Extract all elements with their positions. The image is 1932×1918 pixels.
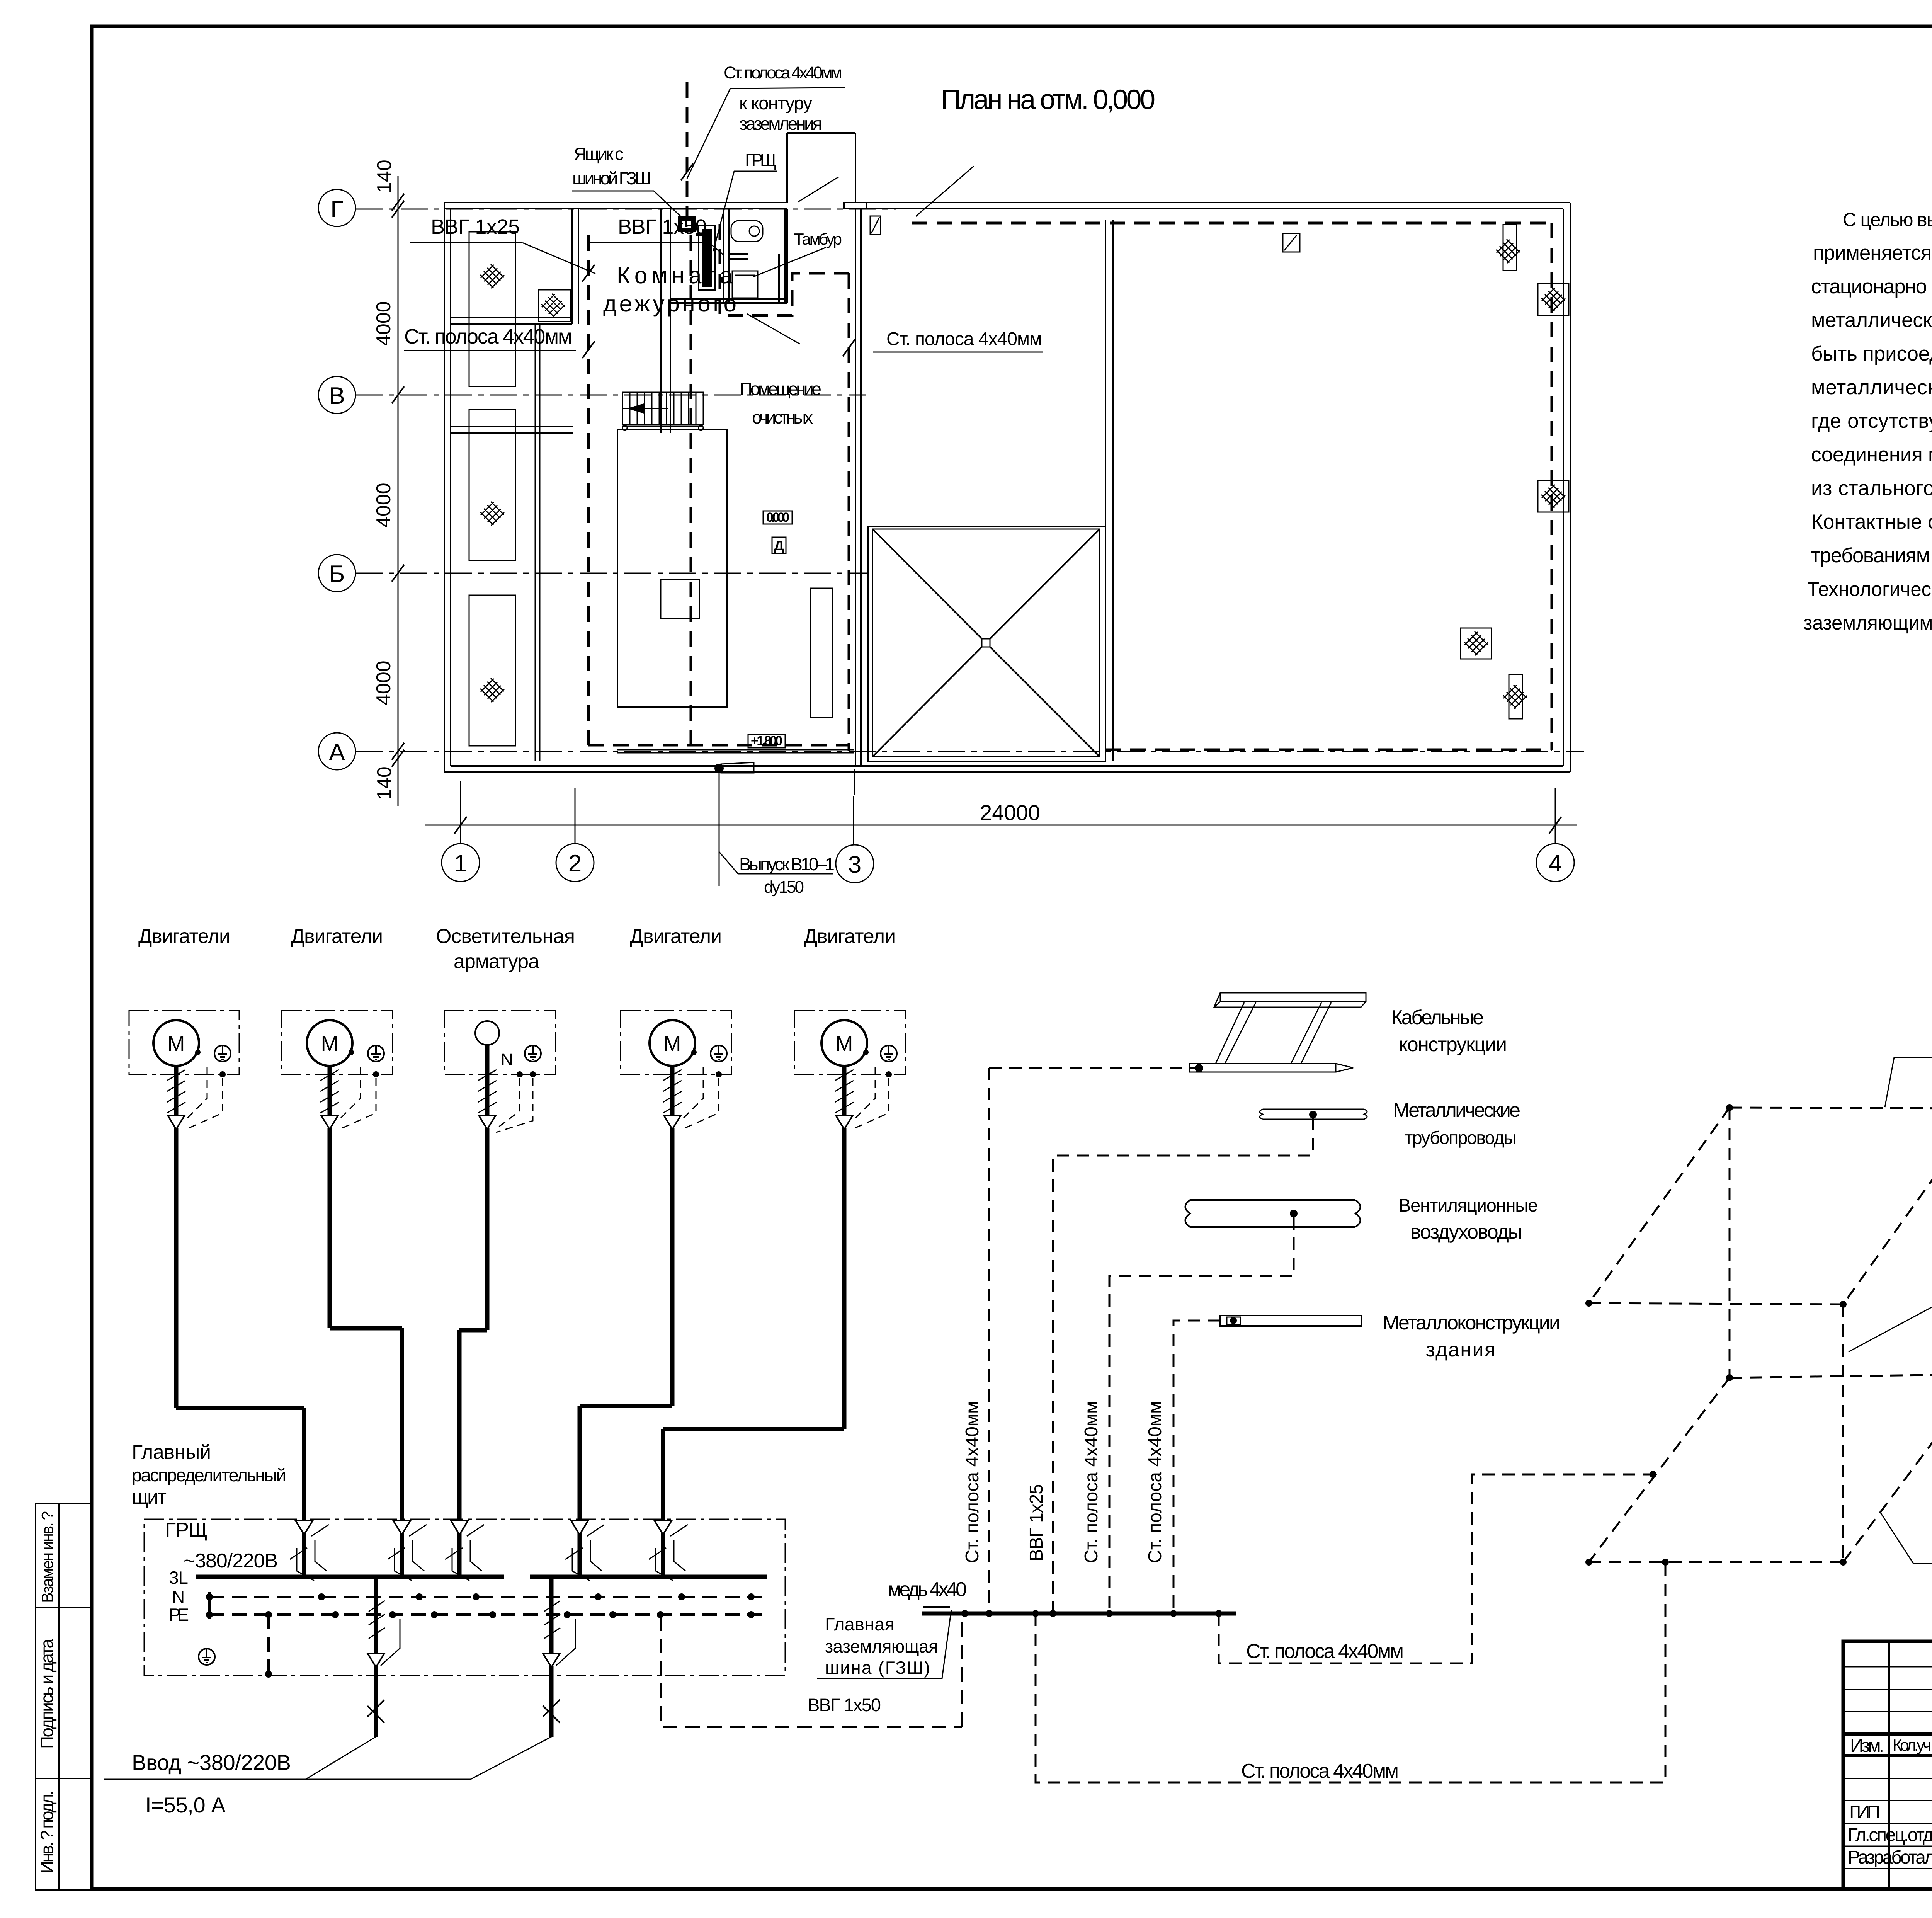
svg-text:dy150: dy150 bbox=[764, 878, 804, 897]
svg-text:щит: щит bbox=[132, 1486, 167, 1508]
svg-text:Двигатели: Двигатели bbox=[804, 925, 896, 948]
svg-text:Ст. полоса 4х40мм: Ст. полоса 4х40мм bbox=[962, 1401, 983, 1563]
svg-text:Главная: Главная bbox=[825, 1614, 895, 1634]
svg-text:Инв. ? подл.: Инв. ? подл. bbox=[37, 1790, 57, 1874]
svg-text:4000: 4000 bbox=[372, 660, 395, 705]
svg-text:ВВГ 1х50: ВВГ 1х50 bbox=[808, 1695, 881, 1715]
svg-text:Двигатели: Двигатели bbox=[291, 925, 383, 948]
svg-text:металлические контакты в со: металлические контакты в сочленениях явл… bbox=[1811, 376, 1932, 399]
svg-text:I=55,0 А: I=55,0 А bbox=[145, 1793, 226, 1817]
svg-text:применяется заземление, строи: применяется заземление, строительные мет… bbox=[1813, 242, 1932, 264]
svg-text:быть присоединены к сети з: быть присоединены к сети заземления. При… bbox=[1811, 342, 1932, 365]
svg-text:Главный: Главный bbox=[132, 1441, 211, 1464]
svg-text:заземляющая: заземляющая bbox=[825, 1636, 938, 1656]
svg-text:заземляющим проводником ВВГ1: заземляющим проводником ВВГ1х25 с ГЗШ по… bbox=[1803, 612, 1932, 634]
svg-text:Г: Г bbox=[330, 196, 344, 223]
svg-text:0.000: 0.000 bbox=[766, 510, 789, 525]
svg-text:4000: 4000 bbox=[372, 301, 395, 346]
svg-text:Кабельные: Кабельные bbox=[1391, 1006, 1484, 1029]
svg-text:Вентиляционные: Вентиляционные bbox=[1399, 1195, 1538, 1215]
svg-text:ГИП: ГИП bbox=[1849, 1802, 1880, 1823]
svg-text:М: М bbox=[168, 1032, 185, 1055]
svg-text:PE: PE bbox=[169, 1605, 189, 1625]
svg-text:медь 4х40: медь 4х40 bbox=[888, 1578, 967, 1601]
svg-text:4000: 4000 bbox=[372, 483, 395, 528]
svg-text:4: 4 bbox=[1549, 850, 1562, 877]
svg-text:здания: здания bbox=[1426, 1339, 1495, 1361]
svg-text:А: А bbox=[329, 739, 345, 766]
svg-text:к контуру: к контуру bbox=[739, 93, 813, 113]
svg-text:Контактные соединения должны: Контактные соединения должны быть выполн… bbox=[1811, 511, 1932, 533]
svg-text:конструкции: конструкции bbox=[1399, 1033, 1507, 1056]
svg-text:Ящик с: Ящик с bbox=[574, 144, 624, 164]
svg-text:Гл.спец.отд: Гл.спец.отд bbox=[1848, 1825, 1932, 1845]
svg-text:3L: 3L bbox=[169, 1567, 188, 1588]
svg-text:Д: Д bbox=[774, 538, 784, 553]
svg-text:N: N bbox=[501, 1050, 513, 1069]
svg-text:ГРЩ: ГРЩ bbox=[165, 1519, 207, 1541]
svg-text:Металлические: Металлические bbox=[1393, 1099, 1520, 1122]
svg-text:Взамен инв. ?: Взамен инв. ? bbox=[38, 1511, 56, 1603]
svg-text:Осветительная: Осветительная bbox=[436, 925, 575, 948]
svg-text:М: М bbox=[836, 1032, 853, 1055]
svg-text:Ст. полоса 4х40мм: Ст. полоса 4х40мм bbox=[886, 329, 1042, 349]
svg-text:Комната: Комната bbox=[617, 262, 733, 288]
svg-text:очистных: очистных bbox=[752, 407, 813, 427]
svg-text:ГРЩ: ГРЩ bbox=[745, 150, 777, 170]
svg-text:арматура: арматура bbox=[454, 950, 539, 973]
svg-text:В: В bbox=[329, 383, 345, 409]
svg-text:Ст. полоса 4х40мм: Ст. полоса 4х40мм bbox=[1241, 1760, 1399, 1782]
svg-text:Металлоконструкции: Металлоконструкции bbox=[1383, 1312, 1560, 1334]
svg-text:3: 3 bbox=[848, 851, 861, 878]
svg-text:Ст. полоса 4х40мм: Ст. полоса 4х40мм bbox=[1081, 1401, 1102, 1563]
svg-text:Помещение: Помещение bbox=[740, 379, 821, 399]
svg-text:соединения между ними должн: соединения между ними должны осуществлят… bbox=[1811, 443, 1932, 466]
svg-text:требованиям ГОСТ 10434–82.: требованиям ГОСТ 10434–82. bbox=[1811, 544, 1932, 567]
svg-text:ВВГ 1х50: ВВГ 1х50 bbox=[618, 215, 707, 238]
svg-text:1: 1 bbox=[454, 850, 467, 877]
svg-text:ВВГ 1х25: ВВГ 1х25 bbox=[1026, 1484, 1047, 1561]
svg-text:Изм.: Изм. bbox=[1850, 1736, 1884, 1756]
svg-text:140: 140 bbox=[373, 160, 396, 193]
svg-text:+1.800: +1.800 bbox=[751, 734, 782, 748]
svg-text:Выпуск В10–1: Выпуск В10–1 bbox=[739, 854, 835, 874]
svg-text:Разработал: Разработал bbox=[1848, 1847, 1932, 1868]
svg-text:дежурного: дежурного bbox=[603, 291, 736, 317]
svg-text:С целью выравнивания потенциал: С целью выравнивания потенциала во всех … bbox=[1843, 209, 1932, 230]
svg-text:стационарно проложенные труб: стационарно проложенные трубопроводы все… bbox=[1811, 275, 1932, 298]
svg-text:шиной ГЗШ: шиной ГЗШ bbox=[572, 168, 651, 188]
svg-text:~380/220В: ~380/220В bbox=[184, 1550, 278, 1572]
svg-text:2: 2 bbox=[568, 850, 582, 877]
svg-text:Технологический трубопровод: Технологический трубопровод В10–1 стальн… bbox=[1807, 578, 1932, 600]
svg-text:Кол.уч: Кол.уч bbox=[1893, 1736, 1931, 1754]
svg-text:трубопроводы: трубопроводы bbox=[1405, 1127, 1517, 1148]
svg-text:Ст. полоса 4х40мм: Ст. полоса 4х40мм bbox=[404, 325, 572, 348]
svg-text:Ст. полоса 4х40мм: Ст. полоса 4х40мм bbox=[724, 63, 842, 82]
svg-text:Тамбур: Тамбур bbox=[794, 230, 842, 248]
svg-text:М: М bbox=[321, 1032, 338, 1055]
svg-text:распределительный: распределительный bbox=[132, 1465, 286, 1485]
svg-text:Ст. полоса 4х40мм: Ст. полоса 4х40мм bbox=[1145, 1401, 1165, 1563]
svg-text:М: М bbox=[664, 1032, 681, 1055]
svg-text:металлические корпуса технол: металлические корпуса технологического о… bbox=[1811, 309, 1932, 332]
svg-text:где отсутствует металлически: где отсутствует металлический контакт ме… bbox=[1811, 410, 1932, 432]
svg-text:24000: 24000 bbox=[980, 800, 1040, 825]
svg-text:План на отм. 0,000: План на отм. 0,000 bbox=[941, 84, 1155, 115]
svg-text:Подпись и дата: Подпись и дата bbox=[37, 1639, 57, 1749]
svg-text:из стального троса диаметро: из стального троса диаметром 6 мм. bbox=[1811, 477, 1932, 500]
svg-text:ВВГ 1х25: ВВГ 1х25 bbox=[431, 215, 520, 238]
svg-text:N: N bbox=[172, 1587, 185, 1607]
svg-text:Двигатели: Двигатели bbox=[630, 925, 722, 948]
svg-text:Б: Б bbox=[329, 561, 345, 587]
svg-text:воздуховоды: воздуховоды bbox=[1410, 1221, 1522, 1243]
svg-text:Ввод ~380/220В: Ввод ~380/220В bbox=[132, 1750, 291, 1775]
svg-text:140: 140 bbox=[373, 766, 396, 800]
svg-text:Двигатели: Двигатели bbox=[138, 925, 230, 948]
svg-text:Ст. полоса 4х40мм: Ст. полоса 4х40мм bbox=[1246, 1640, 1404, 1663]
svg-text:заземления: заземления bbox=[739, 113, 822, 134]
